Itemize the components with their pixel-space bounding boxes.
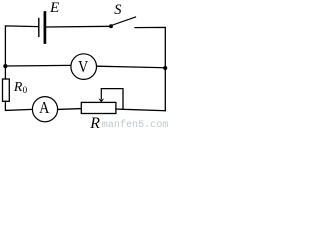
svg-text:R: R	[89, 115, 100, 129]
svg-text:manfen5.com: manfen5.com	[102, 119, 169, 129]
svg-text:A: A	[39, 99, 50, 117]
svg-text:S: S	[114, 2, 121, 18]
svg-text:0: 0	[23, 85, 28, 95]
svg-text:E: E	[49, 0, 60, 16]
svg-text:R: R	[13, 79, 23, 94]
svg-text:V: V	[78, 58, 89, 77]
